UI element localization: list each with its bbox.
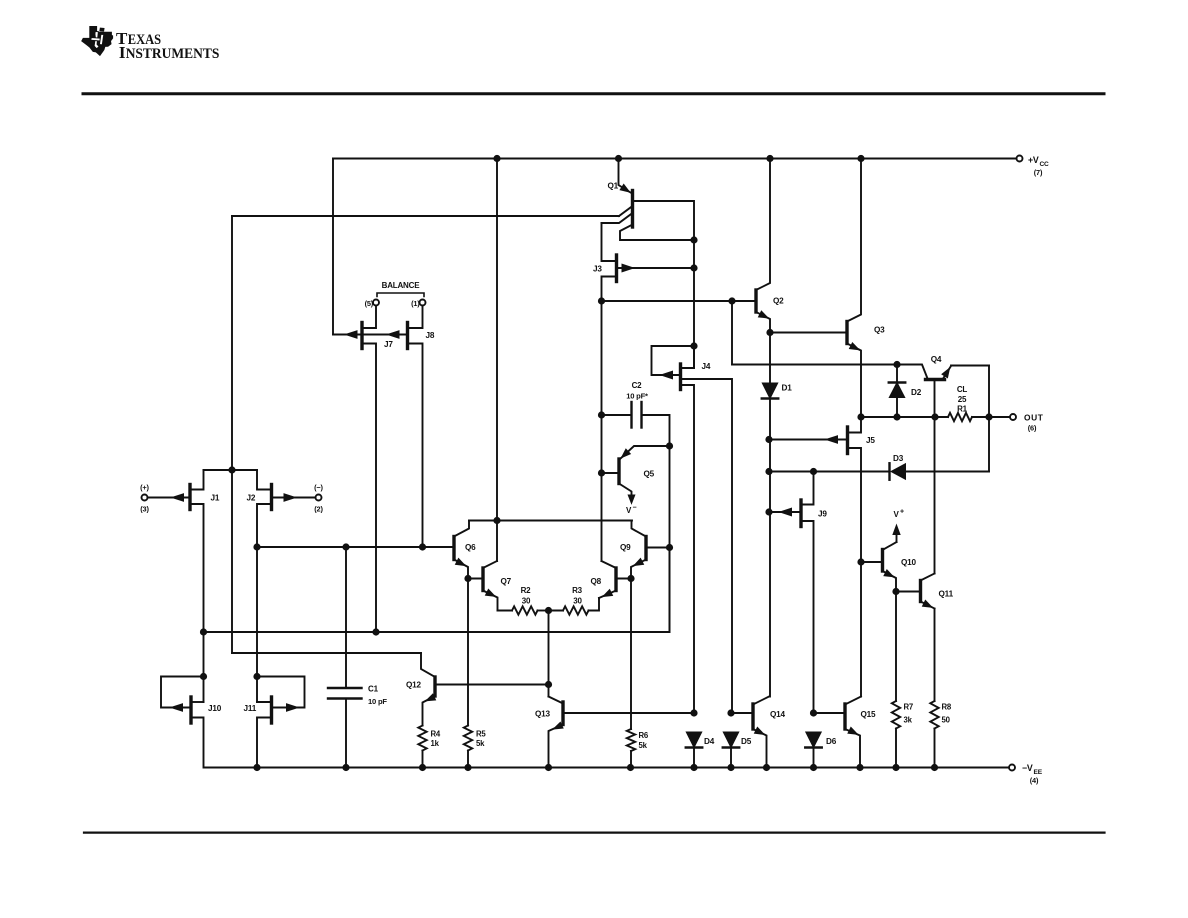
svg-text:J4: J4 xyxy=(702,362,711,371)
diode D2 xyxy=(889,365,922,418)
svg-text:OUT: OUT xyxy=(1024,413,1044,423)
svg-text:R3: R3 xyxy=(572,586,583,595)
terminal balance pin 1 xyxy=(411,299,425,308)
junction on VEE rail at Q14 emitter xyxy=(763,764,769,770)
svg-text:10 pF*: 10 pF* xyxy=(626,392,648,401)
svg-text:Q13: Q13 xyxy=(535,710,551,719)
svg-text:D5: D5 xyxy=(741,737,752,746)
junction on VEE rail at R5 xyxy=(465,764,471,770)
capacitor C1 10 pF xyxy=(328,547,387,768)
wire J7/J8 common gate line xyxy=(333,334,408,336)
junction J4 gate/drain node xyxy=(691,343,697,349)
terminal (+) input pin 3 xyxy=(140,483,149,513)
svg-text:(−): (−) xyxy=(314,483,323,492)
svg-text:(7): (7) xyxy=(1034,168,1043,177)
svg-text:R1: R1 xyxy=(957,405,968,414)
wire Q2 emitter to Q3 base xyxy=(770,332,847,334)
terminal -VEE pin 4 xyxy=(1009,763,1043,785)
wire bias bus (J10 drain to Q9 base riser) xyxy=(204,548,670,633)
resistor R8 50 xyxy=(930,609,952,768)
junction J5 gate on D1 node line xyxy=(766,436,772,442)
svg-text:(4): (4) xyxy=(1030,776,1039,785)
wire vertical x601 (J3 source down to Q8 collector) xyxy=(601,301,603,561)
junction Q12 base at R2/R3 midpoint vertical xyxy=(545,681,551,687)
transistor Q14 (NPN) xyxy=(731,697,786,768)
resistor R7 3k xyxy=(892,592,913,768)
junction node Q1 collectors at x694 xyxy=(691,237,697,243)
junction output node Q4 collector xyxy=(932,414,938,420)
junction J11 gate loop at drain xyxy=(254,673,260,679)
svg-text:+V: +V xyxy=(1028,155,1039,165)
wire Q12 collector horizontal xyxy=(232,652,421,654)
svg-text:+: + xyxy=(900,509,904,516)
resistor R6 5k xyxy=(627,579,649,768)
svg-text:R5: R5 xyxy=(476,730,486,739)
svg-text:10 pF: 10 pF xyxy=(368,697,387,706)
svg-text:−V: −V xyxy=(1022,763,1033,773)
junction J3 source node xyxy=(598,298,604,304)
Texas Instruments logo mark (state of Texas with ti) xyxy=(82,27,113,56)
svg-text:NSTRUMENTS: NSTRUMENTS xyxy=(126,46,220,62)
junction on VEE rail at J11 source xyxy=(254,764,260,770)
BALANCE label and bracket xyxy=(377,281,424,297)
resistor R5 5k xyxy=(464,579,487,768)
svg-text:Q10: Q10 xyxy=(901,558,917,567)
svg-text:5k: 5k xyxy=(476,739,485,748)
JFET J3 xyxy=(593,223,694,301)
junction Q10 base at J5 source line xyxy=(858,559,864,565)
svg-text:C2: C2 xyxy=(632,381,643,390)
svg-text:Q5: Q5 xyxy=(644,470,655,479)
junction J7 source at bias bus xyxy=(373,629,379,635)
junction on VEE rail at R6 xyxy=(627,764,633,770)
transistor Q12 (NPN) xyxy=(406,653,549,726)
svg-text:R2: R2 xyxy=(521,586,532,595)
junction J10 gate loop at drain xyxy=(200,673,206,679)
bottom horizontal rule xyxy=(84,831,1105,833)
junction D3 line at D1 node xyxy=(766,468,772,474)
svg-text:D2: D2 xyxy=(911,388,922,397)
svg-text:−: − xyxy=(633,505,637,512)
junction Q8 base / Q9 emitter xyxy=(628,575,634,581)
junction J9 gate on D1 node line xyxy=(766,509,772,515)
wire vertical x732 down to second-stage horizontal xyxy=(731,301,733,365)
JFET J10 (diode-connected) xyxy=(161,677,222,768)
junction on VEE rail at R4 xyxy=(419,764,425,770)
svg-text:Q4: Q4 xyxy=(931,355,942,364)
junction Q2 base wire to second stage feed xyxy=(729,298,735,304)
terminal balance pin 5 xyxy=(365,299,379,308)
svg-text:R6: R6 xyxy=(639,731,649,740)
svg-text:30: 30 xyxy=(522,597,531,606)
diode D5 xyxy=(723,710,752,768)
top horizontal rule xyxy=(83,92,1104,95)
junction on VEE rail at D4 xyxy=(691,764,697,770)
junction on VCC rail at x861 (Q3 collector) xyxy=(858,155,864,161)
svg-text:J5: J5 xyxy=(866,436,875,445)
junction on VCC rail at x618 (Q1 emitter) xyxy=(615,155,621,161)
svg-text:J8: J8 xyxy=(426,331,435,340)
-VEE supply rail (bottom) xyxy=(204,767,1009,769)
svg-text:(2): (2) xyxy=(314,505,323,514)
svg-text:Q12: Q12 xyxy=(406,681,422,690)
junction C2 left at x601 xyxy=(598,412,604,418)
junction bias bus left end at J1 source xyxy=(200,629,206,635)
svg-text:D1: D1 xyxy=(782,384,793,393)
junction Q10 emitter / Q11 base / R7 xyxy=(893,588,899,594)
transistor Q8 (NPN, mirrored) xyxy=(591,561,632,598)
junction R2/R3 midpoint xyxy=(545,607,551,613)
svg-text:R8: R8 xyxy=(942,703,952,712)
junction on VCC rail at x770 (Q2 collector) xyxy=(767,155,773,161)
diode D1 xyxy=(762,333,792,697)
terminal OUT pin 6 xyxy=(1010,413,1044,433)
svg-text:J1: J1 xyxy=(211,494,220,503)
junction J1/J2 drain bus to Q1 base line xyxy=(229,467,235,473)
junction Q4 emitter at output line xyxy=(986,414,992,420)
wire from VCC rail corner down to J7/J8 gate line xyxy=(332,159,334,335)
svg-text:D6: D6 xyxy=(826,737,837,746)
junction on VEE rail at Q15 emitter xyxy=(857,764,863,770)
JFET J5 xyxy=(769,417,875,697)
svg-text:V: V xyxy=(894,510,900,519)
transistor Q9 (NPN, mirrored) xyxy=(620,521,670,579)
svg-text:30: 30 xyxy=(573,597,582,606)
svg-text:3k: 3k xyxy=(904,716,913,725)
svg-text:Q3: Q3 xyxy=(874,326,885,335)
svg-text:D3: D3 xyxy=(893,454,904,463)
junction C2 right node xyxy=(666,443,672,449)
svg-text:J11: J11 xyxy=(244,704,257,713)
wire node x694 vertical (Q1 collector to J3 gate to J4) xyxy=(693,240,695,368)
svg-text:J10: J10 xyxy=(208,704,222,713)
svg-text:5k: 5k xyxy=(639,741,648,750)
junction on VCC rail at x497 xyxy=(494,155,500,161)
Texas Instruments logo wordmark xyxy=(116,29,220,62)
diode D4 xyxy=(686,710,715,768)
junction Q2 emitter to Q3 base node xyxy=(767,329,773,335)
capacitor C2 10 pF xyxy=(602,381,670,446)
junction Q5 base at x601 xyxy=(598,470,604,476)
transistor Q11 (NPN) xyxy=(896,574,954,609)
diode D6 xyxy=(805,710,836,768)
svg-text:Q14: Q14 xyxy=(770,710,786,719)
JFET J2 (inverting input) xyxy=(247,470,316,702)
wire second stage base line (J2 source to Q6 base) xyxy=(257,546,454,548)
wire Q4/Q11 collector vertical xyxy=(934,417,936,574)
svg-text:J3: J3 xyxy=(593,265,602,274)
resistor R4 1k xyxy=(418,726,441,768)
wire Q12 base line xyxy=(435,684,549,686)
junction D2 cathode on Q4 base wire xyxy=(894,361,900,367)
svg-text:R7: R7 xyxy=(904,703,914,712)
transistor Q13 (NPN) xyxy=(535,697,694,768)
svg-text:25: 25 xyxy=(958,395,967,404)
transistor Q5 (PNP to V-) xyxy=(602,446,670,497)
wire J1/J2 drain bus xyxy=(204,469,258,471)
junction J2 source to second stage wire xyxy=(254,544,260,550)
JFET J7 xyxy=(346,306,394,633)
svg-text:CL: CL xyxy=(957,385,968,394)
wire Q1 base run (long horizontal) xyxy=(232,215,619,217)
terminal (-) input pin 2 xyxy=(314,483,323,513)
V- arrow (Q5 collector to negative supply) xyxy=(626,495,637,515)
svg-text:Q6: Q6 xyxy=(465,543,476,552)
svg-text:Q15: Q15 xyxy=(861,710,877,719)
JFET J1 (noninverting input) xyxy=(148,470,220,702)
terminal +VCC pin 7 xyxy=(1017,155,1050,177)
wire Q4 emitter down to D3 xyxy=(988,366,990,472)
svg-text:D4: D4 xyxy=(704,737,715,746)
svg-text:J7: J7 xyxy=(384,340,393,349)
transistor Q4 (NPN output, rotated) xyxy=(926,355,990,417)
svg-text:Q9: Q9 xyxy=(620,543,631,552)
transistor Q1 (dual-collector PNP) xyxy=(602,159,695,241)
svg-text:C1: C1 xyxy=(368,685,379,694)
junction output node Q3 emitter xyxy=(858,414,864,420)
junction on VEE rail at D5 xyxy=(728,764,734,770)
junction Q9 base node xyxy=(666,544,672,550)
junction J8 source at base line xyxy=(419,544,425,550)
svg-text:(+): (+) xyxy=(140,483,149,492)
wire vertical from Q1 base down to Q12 collector branch xyxy=(231,216,233,653)
svg-text:J9: J9 xyxy=(818,510,827,519)
svg-text:1k: 1k xyxy=(431,739,440,748)
diode D3 xyxy=(769,454,989,480)
svg-text:V: V xyxy=(626,506,632,515)
wire second stage node to Q4 base xyxy=(732,365,928,379)
wire C2 node down to Q9 base xyxy=(669,446,671,632)
JFET J8 xyxy=(388,306,435,548)
svg-text:J2: J2 xyxy=(247,494,256,503)
svg-text:(5): (5) xyxy=(365,299,374,308)
junction on VEE rail at D6 xyxy=(810,764,816,770)
resistor R2 30 xyxy=(498,586,549,615)
transistor Q10 (NPN) xyxy=(861,542,917,592)
svg-text:(6): (6) xyxy=(1028,424,1037,433)
JFET J9 xyxy=(769,472,827,714)
wire Q6/Q9 collector bus xyxy=(469,520,632,522)
+VCC supply rail (top) xyxy=(333,158,1017,160)
transistor Q7 (NPN) xyxy=(468,561,512,611)
transistor Q3 (NPN) xyxy=(847,159,885,418)
junction on VEE rail at Q13 emitter xyxy=(545,764,551,770)
JFET J11 (diode-connected, mirrored) xyxy=(244,677,305,768)
V+ arrow (Q10 collector to positive supply) xyxy=(893,509,904,543)
transistor Q15 (NPN) xyxy=(814,697,877,768)
svg-text:(1): (1) xyxy=(411,299,420,308)
resistor R1 (CL 25) in output xyxy=(861,385,1010,421)
svg-text:50: 50 xyxy=(942,716,951,725)
junction output node D2 anode xyxy=(894,414,900,420)
svg-text:(3): (3) xyxy=(140,505,149,514)
wire vertical x497 (VCC rail to Q7 collector) xyxy=(496,159,498,562)
transistor Q6 (NPN) xyxy=(454,521,476,579)
svg-text:Q7: Q7 xyxy=(501,577,512,586)
svg-text:Q11: Q11 xyxy=(939,590,954,599)
junction on VEE rail at C1 xyxy=(343,764,349,770)
svg-text:Q1: Q1 xyxy=(608,182,619,191)
svg-text:BALANCE: BALANCE xyxy=(382,281,421,290)
wire J3 source to Q2 base xyxy=(602,300,757,302)
junction collector bus to VCC feed at x497 xyxy=(494,517,500,523)
transistor Q2 (NPN) xyxy=(756,159,784,333)
junction on VEE rail at R7 xyxy=(893,764,899,770)
junction Q6 emitter / Q7 base xyxy=(465,575,471,581)
JFET J4 with gate feedback loop xyxy=(652,346,733,713)
junction on VEE rail at R8 xyxy=(931,764,937,770)
junction J3 gate to node x694 xyxy=(691,265,697,271)
wire R2/R3 midpoint down to Q13 collector xyxy=(548,611,550,697)
junction C1 top xyxy=(343,544,349,550)
svg-text:Q2: Q2 xyxy=(773,297,784,306)
svg-text:Q8: Q8 xyxy=(591,577,602,586)
junction D3 line at J9 drain xyxy=(810,468,816,474)
resistor R3 30 xyxy=(549,586,600,615)
svg-text:R4: R4 xyxy=(431,730,441,739)
